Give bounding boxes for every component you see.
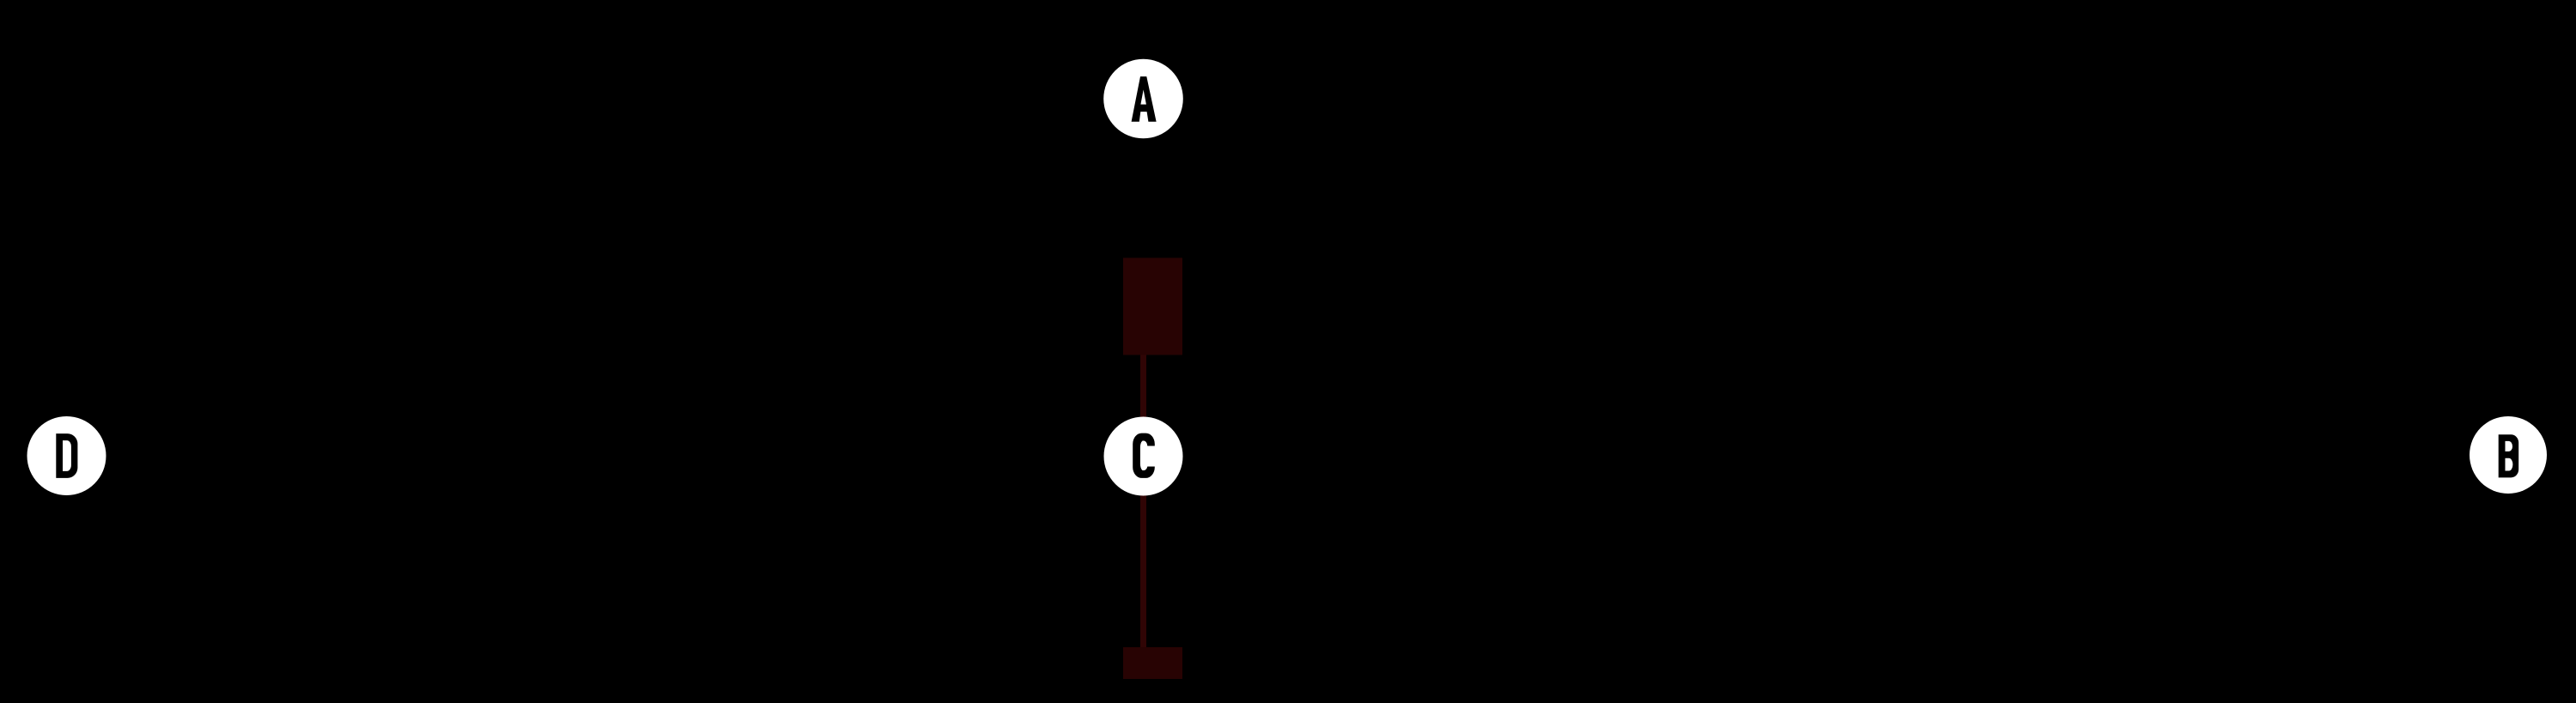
node B	[2470, 416, 2547, 494]
node D	[27, 416, 106, 495]
wire	[1140, 355, 1146, 647]
node C	[1104, 417, 1183, 496]
node A	[1103, 59, 1183, 139]
resistor R2	[1123, 647, 1182, 679]
resistor R1	[1123, 258, 1182, 355]
